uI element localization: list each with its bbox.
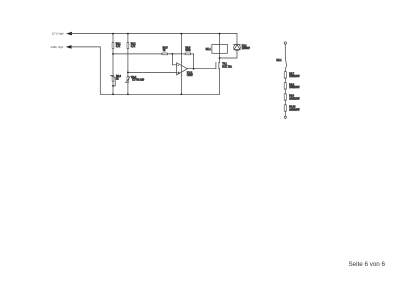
wire heater top: [284, 44, 286, 57]
resistor R6.5: [162, 47, 168, 54]
svg-text:RE.1: RE.1: [206, 49, 212, 51]
svg-text:R6.10: R6.10: [289, 107, 296, 109]
svg-text:10W/10W: 10W/10W: [289, 98, 300, 100]
relay RE.1 coil: [206, 44, 228, 53]
svg-text:T6.1: T6.1: [222, 64, 227, 66]
svg-text:R6.9: R6.9: [289, 96, 295, 98]
svg-text:12 V, high: 12 V, high: [52, 32, 64, 36]
wire divider 2 vertical: [127, 34, 129, 95]
wire heater mid 1: [284, 78, 286, 83]
wire diode branch: [236, 34, 238, 45]
resistor R6.3 trimmer: [110, 75, 121, 86]
node heater terminal top: [284, 42, 286, 44]
wire op-amp supply vertical: [180, 34, 182, 95]
node top rail junction 2: [127, 33, 129, 35]
diode D6.1: [234, 44, 251, 51]
node trimmer wiper junction: [112, 85, 114, 87]
wire bottom rail GND: [100, 93, 219, 95]
svg-text:R6.8: R6.8: [289, 84, 295, 86]
node B junction: [127, 72, 129, 74]
resistor R6.4 sensor KTY81-210: [125, 76, 145, 82]
node top rail junction 3: [181, 33, 183, 35]
transistor T6.1 MOSFET: [216, 62, 232, 69]
wire node A horizontal: [113, 53, 194, 55]
svg-text:GND, high: GND, high: [51, 45, 64, 49]
node bottom rail junction 2: [127, 93, 129, 95]
wire diode return: [220, 51, 238, 58]
wire source: [219, 69, 221, 95]
node top rail junction 4: [219, 33, 221, 35]
svg-text:Seite 6 von 6: Seite 6 von 6: [349, 261, 386, 268]
node 12V input arrow: [66, 32, 72, 36]
node drain junction: [219, 57, 221, 59]
node divider1 junction: [112, 53, 114, 55]
node bottom rail junction 1: [112, 93, 114, 95]
resistor R6.9 heater 3: [284, 94, 300, 101]
resistor R6.6 feedback: [185, 47, 191, 54]
node output junction: [193, 68, 195, 70]
wire feedback drop: [193, 54, 195, 69]
wire divider 1 vertical: [112, 34, 114, 95]
node heater terminal bottom: [284, 116, 286, 118]
resistor R6.1: [112, 43, 121, 49]
node A junction: [172, 53, 174, 55]
svg-text:OP07: OP07: [187, 75, 194, 77]
wire drain: [219, 58, 221, 63]
wire relay coil drop: [219, 34, 221, 58]
node bottom rail junction 3: [181, 93, 183, 95]
switch RE.1 contact: [276, 58, 286, 67]
svg-text:-: -: [178, 64, 179, 67]
resistor R6.2: [127, 43, 136, 49]
svg-text:100k: 100k: [185, 50, 191, 52]
svg-text:10W/10W: 10W/10W: [289, 87, 300, 89]
wire heater mid 3: [284, 100, 286, 105]
svg-text:RE.1: RE.1: [276, 60, 282, 62]
wire top rail +12V: [72, 33, 237, 35]
wire op-amp output: [187, 68, 216, 70]
svg-text:BUZ 72A: BUZ 72A: [222, 65, 232, 68]
svg-text:1N4007: 1N4007: [242, 48, 251, 50]
wire inverting input branch: [172, 54, 176, 65]
svg-text:10W/10W: 10W/10W: [289, 76, 300, 78]
svg-text:R6.7: R6.7: [289, 73, 295, 75]
resistor R6.8 heater 2: [284, 83, 300, 90]
resistor R6.10 heater 4: [284, 105, 300, 112]
wire heater bottom: [284, 111, 286, 116]
svg-text:10W/10W: 10W/10W: [289, 109, 300, 111]
wire non-inverting input branch: [128, 71, 177, 73]
wire GND run: [72, 47, 101, 94]
node top rail junction 1: [112, 33, 114, 35]
wire heater mid 2: [284, 89, 286, 94]
svg-text:KTY81-210: KTY81-210: [132, 80, 144, 82]
wire heater mid 0: [284, 67, 286, 71]
resistor R6.7 heater 1: [284, 72, 300, 79]
node GND input arrow: [66, 45, 72, 49]
op-amp IC6.1: [177, 63, 194, 77]
